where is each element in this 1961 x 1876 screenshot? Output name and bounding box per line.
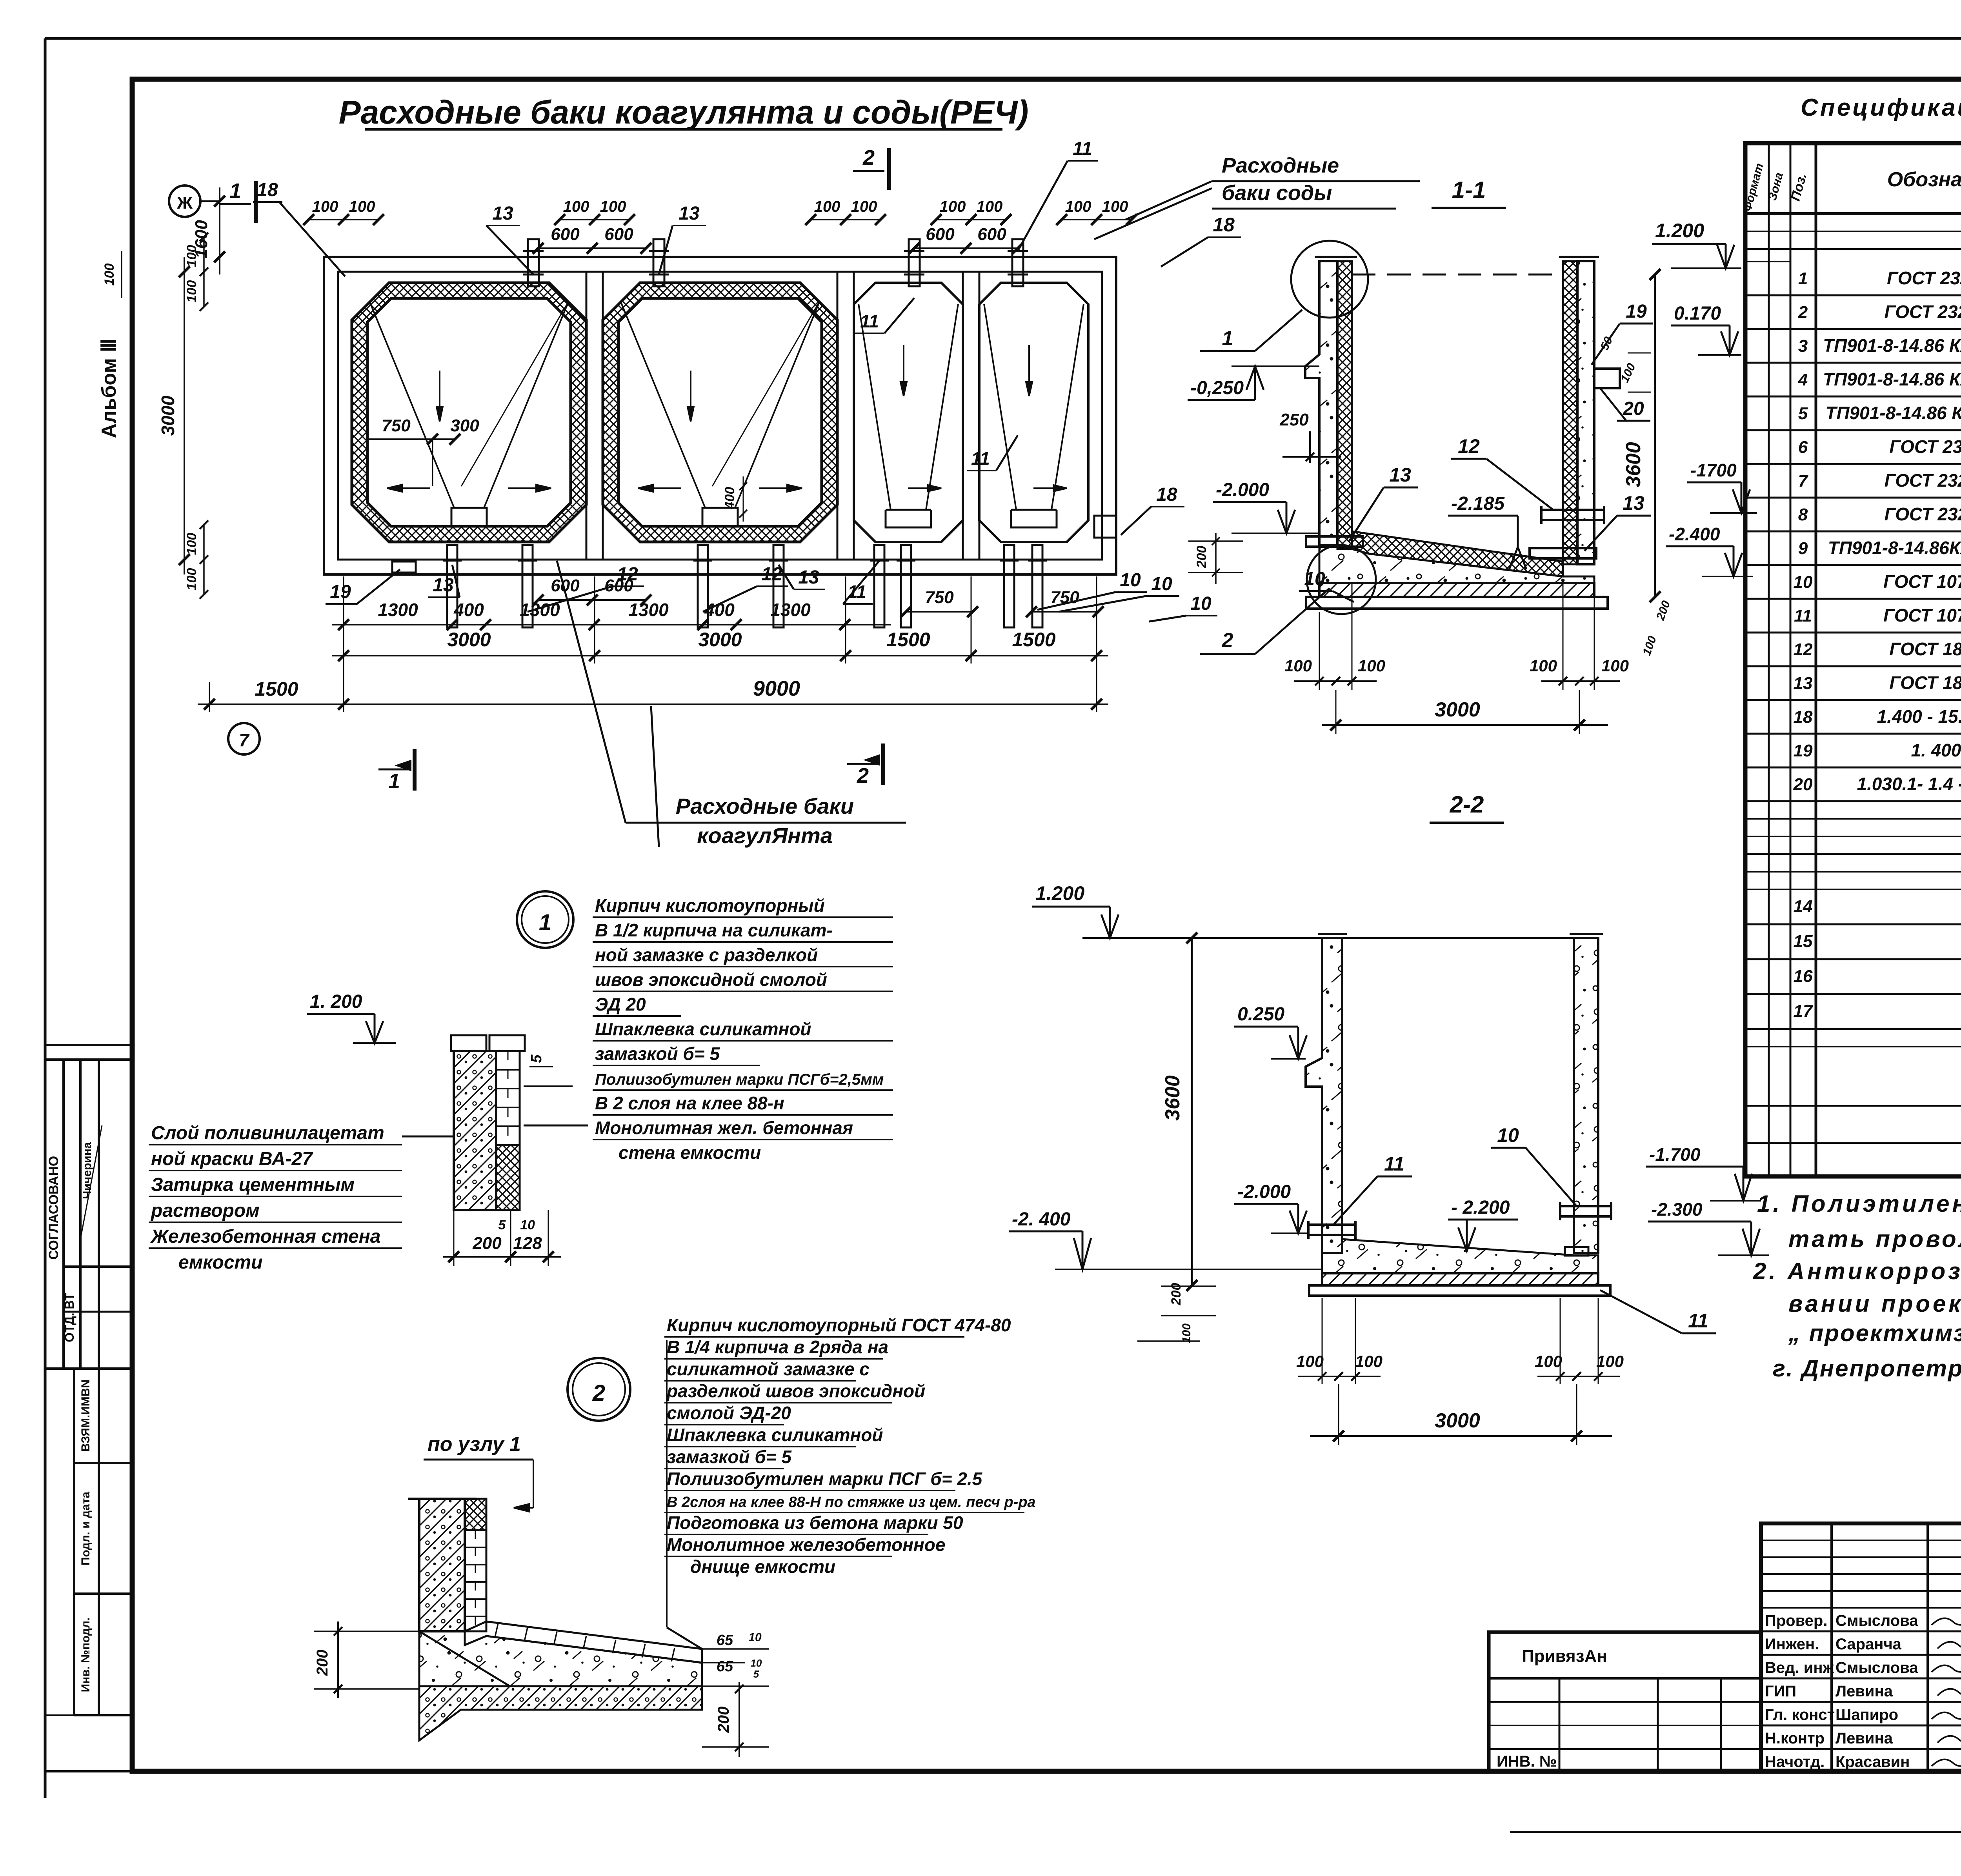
svg-text:5: 5	[498, 1218, 506, 1232]
svg-text:Н.контр: Н.контр	[1765, 1730, 1825, 1747]
svg-text:3000: 3000	[447, 629, 491, 651]
plan: cross wall at axis 2156	[837, 272, 839, 560]
svg-text:ТП901-8-14.86КЖИ.705.01. 00: ТП901-8-14.86КЖИ.705.01. 00	[1828, 538, 1961, 558]
svg-text:В 2слоя на клее 88-Н по стяжке: В 2слоя на клее 88-Н по стяжке из цем. п…	[667, 1494, 1036, 1511]
section 1-1: bottom dim 3000	[1322, 724, 1608, 726]
spec row pos 4	[1745, 396, 1961, 398]
svg-text:18: 18	[1213, 214, 1235, 236]
plan dim row: 1300 400 1300 x2	[332, 624, 891, 625]
section 2-2: pipe left wall (pos 11)	[1308, 1225, 1355, 1235]
svg-text:1: 1	[229, 179, 241, 203]
svg-text:3000: 3000	[698, 629, 742, 651]
plan label 18 (right)	[1094, 516, 1116, 538]
svg-text:Смыслова: Смыслова	[1835, 1659, 1918, 1676]
title block: central signature table	[1761, 1523, 1961, 1771]
section 2-2: floor	[1322, 1239, 1598, 1273]
plan: tank 4 tapered walls	[984, 304, 1016, 510]
detail 2: circle mark	[568, 1358, 630, 1421]
section 1-1: right wall (concrete + lining)	[1577, 261, 1594, 564]
svg-text:400: 400	[453, 600, 484, 620]
svg-text:ТП901-8-14.86 КЖИ. 705.00. 02: ТП901-8-14.86 КЖИ. 705.00. 02	[1823, 369, 1961, 389]
svg-text:Ж: Ж	[176, 193, 193, 213]
title block row Н.контр	[1761, 1748, 1961, 1750]
detail 1: brick lining column	[496, 1051, 520, 1145]
svg-text:750: 750	[382, 416, 411, 435]
svg-text:замазкой б= 5: замазкой б= 5	[595, 1043, 720, 1064]
svg-text:1500: 1500	[886, 629, 930, 651]
title block row Вед. инж	[1761, 1678, 1961, 1680]
svg-text:1. Полиэтиленовые патрубки: 1. Полиэтиленовые патрубки перед установ…	[1757, 1191, 1961, 1217]
svg-text:-2. 400: -2. 400	[1012, 1209, 1071, 1230]
svg-text:100: 100	[349, 198, 375, 215]
svg-text:Затирка цементным: Затирка цементным	[151, 1174, 355, 1195]
svg-text:В 1/2 кирпича на силикат-: В 1/2 кирпича на силикат-	[595, 920, 833, 940]
section 2-2: corner fitting right	[1565, 1247, 1588, 1256]
svg-text:тать проволокой ф 3 мм.: тать проволокой ф 3 мм.	[1788, 1226, 1961, 1252]
svg-text:ной замазке с разделкой: ной замазке с разделкой	[595, 945, 818, 965]
svg-text:100: 100	[1180, 1323, 1193, 1343]
section 1-1: base slab	[1319, 583, 1594, 597]
plan: tank 3 sump	[886, 510, 931, 527]
svg-text:швов эпоксидной смолой: швов эпоксидной смолой	[595, 969, 827, 990]
svg-text:100: 100	[977, 198, 1003, 215]
plan: tank 3 tapered walls	[859, 304, 891, 510]
svg-text:9: 9	[1798, 539, 1808, 558]
svg-text:-0,250: -0,250	[1190, 378, 1244, 398]
svg-text:19: 19	[1626, 301, 1647, 322]
svg-text:Расходные баки: Расходные баки	[676, 794, 854, 818]
svg-text:ЭД 20: ЭД 20	[595, 994, 646, 1014]
svg-text:замазкой б= 5: замазкой б= 5	[667, 1447, 792, 1467]
spec row pos 19	[1745, 767, 1961, 769]
detail 2: wall vertical section	[419, 1499, 465, 1631]
frame bottom continuation left	[45, 1770, 132, 1772]
stamp box ВЗАМ.ИНВ.N	[73, 1369, 75, 1715]
svg-text:емкости: емкости	[178, 1252, 263, 1273]
spec row pos 14	[1745, 923, 1961, 925]
title block row Гл. конст	[1761, 1725, 1961, 1727]
svg-text:1.030.1- 1.4 - 1- 060- 04: 1.030.1- 1.4 - 1- 060- 04	[1857, 774, 1961, 794]
section 2-2: pipe right wall (pos 10)	[1560, 1206, 1611, 1216]
svg-text:смолой ЭД-20: смолой ЭД-20	[667, 1403, 791, 1423]
svg-text:15: 15	[1794, 932, 1813, 951]
svg-text:13: 13	[492, 203, 513, 224]
section 1-1: bottom dims 100x4	[1294, 680, 1377, 682]
svg-text:11: 11	[860, 311, 879, 331]
detail 1: leader to text	[524, 1125, 588, 1127]
plan dim: 3000 left vertical	[184, 257, 185, 574]
sheet outer border	[45, 37, 1961, 40]
spec row pos 1	[1745, 294, 1961, 296]
svg-text:11: 11	[1688, 1310, 1708, 1332]
svg-text:3000: 3000	[158, 395, 178, 436]
spec row pos 13	[1745, 699, 1961, 701]
svg-text:-2.300: -2.300	[1651, 1199, 1703, 1220]
svg-text:Шпаклевка силикатной: Шпаклевка силикатной	[595, 1019, 811, 1039]
svg-text:100: 100	[814, 198, 840, 215]
svg-text:2: 2	[862, 146, 875, 169]
svg-text:-2.000: -2.000	[1237, 1182, 1291, 1202]
svg-text:20: 20	[1793, 775, 1813, 794]
plan: cross wall at axis 2476	[962, 272, 964, 560]
svg-text:10: 10	[1120, 570, 1141, 591]
svg-text:2: 2	[1798, 303, 1808, 322]
svg-text:1300: 1300	[770, 600, 811, 620]
svg-text:100: 100	[1358, 656, 1385, 675]
svg-text:ГОСТ 23279 - 85: ГОСТ 23279 - 85	[1885, 470, 1961, 491]
svg-text:11: 11	[1794, 606, 1812, 625]
svg-text:100: 100	[184, 533, 199, 555]
svg-text:1.400 - 15. В1. 130: 1.400 - 15. В1. 130	[1877, 706, 1961, 727]
svg-text:7: 7	[239, 730, 250, 750]
svg-text:Инжен.: Инжен.	[1765, 1636, 1819, 1653]
svg-text:1300: 1300	[520, 600, 560, 620]
section 1-1: left wall (concrete + lining)	[1305, 261, 1337, 545]
svg-text:2. Антикоррозионнная защита: 2. Антикоррозионнная защита принята на о…	[1753, 1258, 1961, 1284]
svg-text:1300: 1300	[628, 600, 669, 620]
plan dim: 1600 left vertical	[219, 187, 220, 274]
svg-text:баки соды: баки соды	[1222, 181, 1332, 205]
plan dim: 600 600 below	[538, 599, 646, 601]
svg-text:СОГЛАСОВАНО: СОГЛАСОВАНО	[46, 1156, 61, 1260]
svg-text:- 2.200: - 2.200	[1451, 1197, 1510, 1218]
spec row pos 8	[1745, 531, 1961, 533]
svg-text:750: 750	[925, 588, 954, 607]
svg-text:2-2: 2-2	[1450, 791, 1484, 818]
detail 1: wall section (concrete)	[454, 1051, 496, 1210]
svg-text:Кирпич кислотоупорный: Кирпич кислотоупорный	[595, 895, 825, 916]
svg-text:100: 100	[1284, 656, 1312, 675]
svg-text:г. Днепропетровск, заказ N: г. Днепропетровск, заказ N 1044.	[1773, 1355, 1961, 1382]
svg-text:400: 400	[722, 487, 737, 510]
svg-text:5: 5	[1798, 404, 1808, 423]
svg-text:65: 65	[717, 1658, 733, 1675]
plan dim extension lines	[343, 576, 344, 664]
svg-text:100: 100	[102, 264, 117, 286]
svg-text:ГОСТ 10704- 76*: ГОСТ 10704- 76*	[1883, 571, 1961, 592]
svg-text:ГОСТ 23279 - 85: ГОСТ 23279 - 85	[1885, 504, 1961, 524]
section 1-1: sloped floor lining	[1352, 531, 1563, 576]
svg-text:600: 600	[551, 225, 580, 244]
svg-text:200: 200	[715, 1707, 732, 1733]
svg-text:100: 100	[563, 198, 589, 215]
svg-text:ТП901-8-14.86 КЖИ. 705.00. 01: ТП901-8-14.86 КЖИ. 705.00. 01	[1823, 335, 1961, 356]
section 1-1: pipe left wall (pos 13)	[1306, 536, 1363, 547]
title block row ГИП	[1761, 1701, 1961, 1703]
plan: cross wall at axis 1516	[586, 272, 588, 560]
spec row pos 7	[1745, 497, 1961, 499]
plan dim: 600 600 top left	[538, 247, 646, 249]
svg-text:300: 300	[450, 416, 479, 435]
svg-text:1: 1	[388, 769, 400, 793]
svg-text:ГОСТ 23279-85: ГОСТ 23279-85	[1889, 436, 1961, 457]
svg-text:3000: 3000	[1435, 698, 1480, 721]
spec row pos 12	[1745, 665, 1961, 667]
svg-text:„ проектхимзащита.": „ проектхимзащита."	[1788, 1320, 1961, 1346]
svg-text:13: 13	[433, 575, 454, 596]
plan: axis mark 7	[228, 723, 260, 754]
svg-text:1.200: 1.200	[1655, 220, 1704, 242]
svg-text:Подл. и дата: Подл. и дата	[79, 1492, 92, 1565]
plan: bottom pipe stub x=1153	[447, 545, 457, 627]
svg-text:100: 100	[1596, 1352, 1624, 1371]
svg-text:Левина: Левина	[1835, 1730, 1893, 1747]
section 1-1: right wall bracket detail	[1594, 369, 1620, 388]
svg-text:0.250: 0.250	[1237, 1004, 1284, 1025]
svg-text:13: 13	[798, 567, 819, 588]
svg-text:100: 100	[851, 198, 877, 215]
svg-text:65: 65	[717, 1632, 733, 1649]
section 2-2: top edge line between walls	[1342, 937, 1574, 939]
svg-text:100: 100	[312, 198, 338, 215]
svg-text:100: 100	[1535, 1352, 1562, 1371]
svg-text:3000: 3000	[1435, 1409, 1480, 1432]
plan: bottom pipe stub x=2645	[1032, 545, 1042, 627]
detail 2: floor slope with brick layer	[465, 1622, 702, 1663]
svg-text:5: 5	[528, 1054, 545, 1063]
plan: tank enclosure outer walls	[324, 257, 1116, 574]
svg-text:Инв. №подл.: Инв. №подл.	[79, 1618, 92, 1692]
section 2-2: right wall	[1574, 938, 1598, 1253]
svg-text:Вед. инж: Вед. инж	[1765, 1659, 1834, 1676]
svg-text:ГОСТ 23279- 85: ГОСТ 23279- 85	[1887, 268, 1961, 288]
svg-text:Кирпич кислотоупорный ГОСТ 474: Кирпич кислотоупорный ГОСТ 474-80	[667, 1315, 1011, 1335]
svg-text:13: 13	[1389, 464, 1411, 486]
svg-text:19: 19	[330, 582, 351, 602]
svg-text:14: 14	[1794, 897, 1813, 916]
svg-text:250: 250	[1279, 410, 1309, 429]
svg-text:Чичерина: Чичерина	[81, 1142, 94, 1199]
svg-text:-2.400: -2.400	[1669, 524, 1720, 544]
plan: tank 1 lining ring (crosshatch)	[352, 283, 586, 542]
svg-text:13: 13	[1623, 492, 1644, 514]
plan: bottom pipe stub x=2573	[1004, 545, 1014, 627]
left margin stamp boxes	[45, 1044, 132, 1046]
section 2-2: bottom dim 3000	[1310, 1435, 1612, 1437]
svg-text:200: 200	[472, 1234, 502, 1253]
svg-text:10: 10	[520, 1218, 535, 1232]
detail 1: top cap bricks	[451, 1035, 486, 1051]
svg-text:3600: 3600	[1622, 442, 1645, 487]
svg-text:-1700: -1700	[1690, 460, 1737, 480]
svg-text:Левина: Левина	[1835, 1683, 1893, 1700]
svg-text:ГОСТ 18599-83: ГОСТ 18599-83	[1889, 639, 1961, 659]
svg-text:ВЗЯМ.ИМВN: ВЗЯМ.ИМВN	[79, 1380, 92, 1452]
title block: left attachment table	[1489, 1632, 1761, 1771]
svg-text:ИНВ. №: ИНВ. №	[1497, 1753, 1557, 1770]
plan dim row: 1500 + 9000	[198, 703, 1108, 705]
svg-text:200: 200	[314, 1650, 331, 1676]
plan dim: 100+100 pairs on top	[309, 219, 378, 220]
svg-text:Шапиро: Шапиро	[1835, 1706, 1898, 1723]
svg-text:-1.700: -1.700	[1649, 1144, 1701, 1165]
svg-text:6: 6	[1798, 438, 1808, 457]
svg-text:1500: 1500	[255, 678, 298, 700]
svg-text:Монолитная жел. бетонная: Монолитная жел. бетонная	[595, 1118, 853, 1138]
plan: tank 2 slope diagonals	[620, 301, 705, 508]
svg-text:600: 600	[926, 225, 955, 244]
svg-text:100: 100	[1102, 198, 1128, 215]
svg-text:13: 13	[679, 203, 700, 224]
svg-text:днище емкости: днище емкости	[690, 1556, 835, 1577]
spec row pos 15	[1745, 958, 1961, 960]
svg-text:100: 100	[1296, 1352, 1324, 1371]
svg-text:ГОСТ 23279 - 85: ГОСТ 23279 - 85	[1885, 302, 1961, 322]
plan: tank 2 flow arrows	[688, 371, 694, 422]
plan: bottom pipe stub x=1792	[698, 545, 708, 627]
plan dim: 600 600 top right	[914, 247, 1018, 249]
plan: tank 1 sump	[451, 508, 487, 526]
svg-text:18: 18	[1794, 707, 1813, 727]
plan: tank 3 outline	[854, 283, 963, 542]
plan: top pipe stub x=2595	[1012, 239, 1023, 286]
svg-text:100: 100	[1530, 656, 1557, 675]
svg-text:стена емкости: стена емкости	[618, 1142, 761, 1163]
spec row pos 20	[1745, 800, 1961, 802]
svg-text:11: 11	[1384, 1153, 1404, 1175]
svg-text:100: 100	[940, 198, 966, 215]
svg-text:11: 11	[971, 448, 990, 469]
svg-text:2: 2	[592, 1380, 605, 1406]
plan: bottom pipe stub x=1985	[773, 545, 784, 627]
svg-text:20: 20	[1623, 398, 1644, 419]
svg-text:ТП901-8-14.86 КЖИ. 705.00.03: ТП901-8-14.86 КЖИ. 705.00.03	[1825, 403, 1961, 423]
plan: tank 2 sump	[702, 508, 738, 526]
section 1-1: base plate	[1306, 597, 1608, 609]
plan interior dim 750/300	[369, 438, 455, 440]
svg-text:коагулЯнта: коагулЯнта	[697, 823, 833, 848]
svg-text:вании проекта, выполненного: вании проекта, выполненного институтом	[1788, 1291, 1961, 1317]
svg-text:100: 100	[184, 280, 199, 303]
svg-text:Шпаклевка силикатной: Шпаклевка силикатной	[667, 1425, 883, 1445]
svg-text:12: 12	[617, 564, 638, 585]
svg-text:3: 3	[1798, 336, 1808, 356]
plan: axis mark Ж	[169, 185, 200, 217]
svg-text:18: 18	[257, 180, 278, 200]
svg-text:1.200: 1.200	[1035, 882, 1084, 904]
spec row pos 5	[1745, 429, 1961, 431]
section 1-1: pipe through right wall (pos 12)	[1541, 510, 1604, 520]
svg-text:силикатной замазке с: силикатной замазке с	[667, 1359, 870, 1379]
svg-text:Начотд.: Начотд.	[1765, 1753, 1825, 1771]
svg-text:1-1: 1-1	[1452, 177, 1486, 203]
title block row Инжен.	[1761, 1654, 1961, 1656]
svg-text:ГОСТ 18599-83: ГОСТ 18599-83	[1889, 673, 1961, 693]
svg-text:600: 600	[977, 225, 1006, 244]
section 2-2: vertical dim 3600	[1191, 938, 1193, 1285]
section 2-2: left wall	[1306, 938, 1342, 1253]
svg-text:ГИП: ГИП	[1765, 1683, 1796, 1700]
section 1-1: floor concrete	[1319, 545, 1594, 583]
plan: top pipe stub x=1680	[653, 239, 664, 286]
plan: tank 4 sump	[1011, 510, 1057, 527]
svg-text:ПривязАн: ПривязАн	[1522, 1647, 1607, 1666]
svg-text:7: 7	[1798, 471, 1809, 491]
svg-text:В 2 слоя на клее 88-н: В 2 слоя на клее 88-н	[595, 1093, 784, 1113]
svg-text:1500: 1500	[1012, 629, 1055, 651]
section 1-1: pipe at floor right (pos 13)	[1530, 548, 1596, 558]
svg-text:100: 100	[1065, 198, 1091, 215]
svg-text:19: 19	[1794, 741, 1813, 760]
svg-text:10: 10	[1151, 574, 1172, 594]
svg-text:Альбом Ⅲ: Альбом Ⅲ	[98, 338, 120, 438]
svg-text:13: 13	[1794, 674, 1813, 693]
svg-text:Железобетонная стена: Железобетонная стена	[150, 1226, 380, 1247]
plan dim row: 3000 3000 1500 1500	[332, 655, 1108, 656]
svg-text:5: 5	[753, 1668, 759, 1680]
svg-text:1: 1	[1798, 269, 1808, 288]
svg-text:-2.185: -2.185	[1451, 493, 1505, 514]
section 1-1: detail circle top	[1291, 241, 1368, 318]
spec row: Бетон М200	[1745, 1105, 1961, 1107]
plan: top pipe stub x=1360	[528, 239, 539, 286]
svg-text:1. 200: 1. 200	[310, 991, 362, 1012]
svg-text:100: 100	[184, 568, 199, 591]
svg-text:Подготовка из бетона марки 50: Подготовка из бетона марки 50	[667, 1512, 963, 1533]
spec row pos 10	[1745, 598, 1961, 600]
spec row pos 17	[1745, 1028, 1961, 1030]
spec row pos 9	[1745, 564, 1961, 566]
svg-text:10: 10	[1304, 569, 1325, 589]
svg-text:10: 10	[751, 1657, 762, 1669]
detail 2: brick lining strip	[465, 1499, 486, 1530]
plan: tank 4 outline	[979, 283, 1088, 542]
svg-text:ной краски ВА-27: ной краски ВА-27	[151, 1149, 313, 1169]
svg-text:2: 2	[1222, 629, 1233, 652]
plan: tank 1 slope diagonals	[369, 301, 454, 508]
spec row pos 2	[1745, 328, 1961, 330]
plan: tank 3 arrows	[900, 345, 907, 396]
spec row pos 16	[1745, 993, 1961, 995]
svg-text:10: 10	[1497, 1124, 1519, 1146]
section 1-1: detail circle bottom	[1307, 545, 1376, 614]
plan: tank 1 flow arrows	[437, 371, 443, 422]
svg-text:100: 100	[1601, 656, 1629, 675]
section 2-2: base plate	[1309, 1285, 1610, 1296]
svg-text:по узлу 1: по узлу 1	[427, 1433, 521, 1456]
svg-text:128: 128	[513, 1234, 542, 1253]
svg-text:9000: 9000	[753, 677, 800, 700]
svg-text:16: 16	[1794, 967, 1813, 986]
plan: bottom pipe stub x=2310	[901, 545, 911, 627]
svg-text:Расходные баки коагулянта и: Расходные баки коагулянта и соды(РЕЧ)	[339, 94, 1029, 131]
svg-text:Полиизобутилен марки ПСГ б= 2: Полиизобутилен марки ПСГ б= 2.5	[667, 1469, 983, 1489]
svg-text:10: 10	[748, 1631, 762, 1644]
svg-text:Обозначение: Обозначение	[1887, 168, 1961, 191]
svg-text:600: 600	[604, 225, 633, 244]
section 2-2: bottom dims 100 pairs	[1298, 1376, 1381, 1377]
svg-text:11: 11	[848, 582, 866, 602]
svg-text:разделкой швов эпоксидной: разделкой швов эпоксидной	[666, 1381, 925, 1401]
spec row pos 6	[1745, 463, 1961, 465]
plan: bottom pipe stub x=1345	[522, 545, 533, 627]
svg-text:0.170: 0.170	[1674, 303, 1721, 324]
detail 1: circle mark	[517, 891, 573, 948]
svg-text:Расходные: Расходные	[1222, 154, 1339, 177]
title block row Провер.	[1761, 1631, 1961, 1632]
section 1-1: top caps	[1315, 256, 1357, 258]
svg-text:12: 12	[1458, 435, 1480, 457]
svg-text:100: 100	[1355, 1352, 1383, 1371]
svg-text:Слой поливинилацетат: Слой поливинилацетат	[151, 1123, 384, 1143]
svg-text:1300: 1300	[378, 600, 418, 620]
svg-text:Красавин: Красавин	[1835, 1753, 1910, 1771]
svg-text:Смыслова: Смыслова	[1835, 1612, 1918, 1629]
plan: top pipe stub x=2331	[909, 239, 920, 286]
svg-text:3600: 3600	[1161, 1075, 1184, 1121]
svg-text:Спецификация к расходным бак: Спецификация к расходным баком коагулянт…	[1801, 94, 1961, 121]
svg-text:10: 10	[1190, 593, 1212, 614]
